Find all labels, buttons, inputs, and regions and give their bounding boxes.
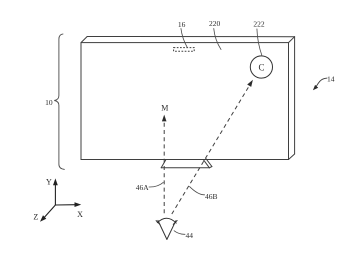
dashed line 46A / M axis [163, 123, 165, 215]
cone left side [158, 220, 167, 239]
svg-text:16: 16 [178, 20, 186, 29]
top-left depth edge [81, 37, 87, 43]
bottom notch (sensor slot) [161, 159, 212, 168]
svg-text:10: 10 [45, 98, 53, 107]
notch bottom [161, 167, 209, 169]
svg-text:46A: 46A [136, 183, 150, 192]
notch right inner diagonal [206, 159, 212, 167]
X axis [55, 204, 76, 206]
cone left tick [156, 221, 160, 225]
display front face [81, 43, 289, 160]
svg-text:X: X [77, 210, 83, 219]
X arrowhead [75, 202, 82, 207]
svg-text:222: 222 [253, 19, 265, 28]
leader arrow 14 [315, 78, 327, 88]
arrowhead M [162, 115, 167, 122]
dashed line 46B [172, 85, 250, 214]
camera window 16 (dashed) [174, 48, 195, 52]
notch right outer diagonal [203, 160, 209, 168]
gaze cone 44 [156, 218, 177, 239]
svg-text:Z: Z [33, 213, 38, 222]
Y axis [54, 184, 56, 205]
Y arrowhead [53, 178, 58, 185]
svg-text:14: 14 [327, 75, 335, 84]
cone right tick [173, 221, 177, 225]
top back edge [87, 36, 294, 38]
svg-text:220: 220 [209, 19, 221, 28]
cone right side [167, 221, 176, 240]
svg-text:M: M [161, 104, 168, 113]
svg-text:46B: 46B [205, 192, 218, 201]
cone arc [157, 218, 176, 223]
leader 46B [189, 186, 205, 195]
svg-text:Y: Y [46, 177, 52, 186]
svg-text:44: 44 [185, 231, 193, 240]
leader 46A [149, 182, 164, 187]
svg-text:C: C [258, 62, 264, 72]
coordinate axes [44, 184, 76, 218]
leader 222 [257, 29, 262, 56]
top-right depth edge [289, 37, 295, 43]
arrowhead 46B [247, 80, 253, 87]
gaze point circle C (222) [250, 56, 272, 78]
notch right closing [209, 167, 212, 168]
leader 44 [174, 231, 186, 235]
leader 16 [181, 28, 187, 47]
notch left side [161, 160, 166, 168]
Z arrowhead [40, 215, 46, 222]
brace 10 [54, 34, 64, 170]
bottom-right depth edge [289, 154, 295, 160]
leader 220 [214, 28, 222, 50]
right back edge [294, 37, 296, 154]
Z axis [44, 205, 55, 218]
